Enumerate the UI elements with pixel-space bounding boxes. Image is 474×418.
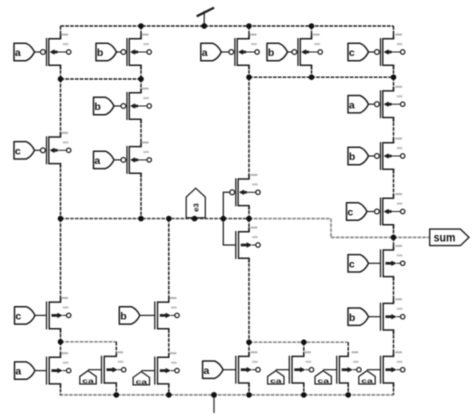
net label ca — [133, 371, 155, 386]
wire node n4 (right pull-down) — [249, 341, 348, 343]
svg-text:b: b — [349, 312, 355, 324]
wire sum to M12 drain — [248, 219, 250, 232]
junction n2 at M6 — [246, 74, 252, 80]
input port b — [119, 307, 155, 324]
pmos M3 (gate b) — [121, 88, 151, 124]
wire n2 to M11 source — [248, 77, 250, 179]
wire M14 source to M17 drain — [168, 329, 170, 358]
pmos M11 (gate e3) — [230, 174, 260, 210]
svg-text:e3: e3 — [192, 203, 201, 211]
input port b — [94, 97, 121, 114]
svg-text:c: c — [349, 47, 355, 59]
input port c — [348, 43, 374, 60]
junction n4 at M12 — [246, 339, 252, 345]
svg-text:ca: ca — [82, 378, 94, 385]
junction sum at inverter drain — [246, 216, 252, 222]
net label e3 — [186, 188, 205, 218]
junction n2 at M8 — [391, 74, 397, 80]
wire M10 drain to M21 source — [393, 169, 395, 198]
wire M4 drain to e3 — [140, 173, 142, 218]
nmos M24 (gate ca) — [381, 351, 405, 387]
wire M1 drain to n1 — [60, 65, 62, 79]
wire n1 to M5 source — [60, 79, 62, 137]
wire node n3 (left pull-down) — [61, 341, 117, 343]
vdd supply symbol — [197, 8, 214, 26]
wire M20 source to gnd — [347, 383, 349, 395]
junction gnd at stem — [211, 392, 217, 398]
nmos M19 (gate ca) — [289, 351, 313, 387]
pmos M6 (gate a) — [229, 34, 259, 70]
wire n3 to M15 drain — [60, 342, 62, 358]
svg-text:b: b — [268, 47, 274, 59]
wire inverter gate net — [223, 192, 236, 245]
wire node n1 (left pull-up) — [61, 78, 142, 80]
wire M13 source to n3 — [60, 329, 62, 342]
wire n4 to M18 drain — [248, 342, 250, 356]
svg-text:c: c — [15, 145, 21, 157]
wire vdd to M7 source — [311, 26, 313, 39]
svg-text:c: c — [347, 207, 353, 219]
wire e3 to M14 drain — [168, 219, 170, 303]
input port c — [348, 255, 381, 272]
svg-text:b: b — [97, 47, 103, 59]
svg-text:b: b — [120, 311, 126, 323]
nmos M23 (gate b) — [381, 298, 405, 334]
junction gnd at M17 — [166, 392, 172, 398]
pmos M7 (gate b) — [292, 34, 322, 70]
pmos M8 (gate c) — [375, 34, 405, 70]
input port b — [348, 147, 374, 164]
pmos M4 (gate a) — [121, 142, 151, 178]
wire sum output net — [249, 219, 430, 238]
svg-text:b: b — [349, 151, 355, 163]
junction vdd rail at M6 — [246, 23, 252, 29]
svg-text:ca: ca — [318, 378, 330, 385]
net label ca — [359, 370, 381, 385]
wire node n2 (right pull-up parallel trio) — [249, 76, 394, 78]
junction e3 at inverter gate — [221, 216, 227, 222]
input port a — [348, 96, 374, 113]
input port c — [347, 203, 375, 220]
wire n1 to M3 source — [140, 79, 142, 93]
wire M8 drain to n2 — [393, 65, 395, 77]
wire M18 source to gnd — [248, 383, 250, 395]
svg-text:c: c — [15, 311, 21, 323]
nmos M16 (gate ca) — [102, 351, 126, 387]
junction vdd rail at supply — [201, 23, 207, 29]
nmos M12 (gate e3) — [236, 227, 260, 263]
junction n1 left — [58, 76, 64, 82]
svg-text:ca: ca — [270, 378, 282, 385]
wire M19 source to gnd — [303, 383, 305, 395]
input port b — [96, 43, 121, 60]
junction gnd at M16 — [114, 392, 120, 398]
wire vdd to M2 source — [140, 26, 142, 39]
wire vdd rail — [61, 25, 394, 27]
wire M22 source to M23 drain — [393, 277, 395, 304]
junction n3 at M13 — [58, 339, 64, 345]
input port a — [94, 151, 121, 168]
nmos M20 (gate ca) — [337, 351, 361, 387]
pmos M10 (gate b) — [375, 138, 405, 174]
input port a — [203, 361, 236, 378]
wire node e3 (sum-bar) — [61, 218, 250, 220]
wire n3 to M16 drain — [115, 342, 117, 357]
junction n1 right — [138, 76, 144, 82]
wire sum to M22 drain — [393, 237, 395, 250]
net label ca — [315, 370, 337, 385]
wire M12 source to n4 — [248, 258, 250, 342]
junction e3 at M4 — [138, 216, 144, 222]
wire vdd to M6 source — [248, 26, 250, 39]
wire M21 drain to sum — [393, 225, 395, 238]
svg-text:a: a — [349, 99, 355, 111]
svg-text:c: c — [349, 258, 355, 270]
svg-text:a: a — [15, 366, 21, 378]
svg-text:b: b — [94, 101, 100, 113]
net label ca — [268, 370, 290, 385]
junction gnd at M19 — [301, 392, 307, 398]
junction gnd at M20 — [345, 392, 351, 398]
junction gnd at M18 — [246, 392, 252, 398]
output port sum — [430, 229, 469, 246]
junction vdd rail at M7 — [309, 23, 315, 29]
svg-text:a: a — [204, 365, 210, 377]
input port b — [267, 43, 292, 60]
wire vdd to M8 source — [393, 26, 395, 39]
nmos M15 (gate a) — [47, 352, 71, 388]
nmos M13 (gate c) — [47, 297, 71, 333]
wire M11 drain to sum — [248, 206, 250, 219]
input port b — [348, 308, 381, 325]
junction e3 at left branch — [58, 216, 64, 222]
nmos M17 (gate ca) — [155, 352, 179, 388]
wire M5 drain to e3 — [60, 164, 62, 219]
junction n2 at M7 — [309, 74, 315, 80]
pmos M9 (gate a) — [375, 86, 405, 122]
wire M23 source to M24 drain — [393, 330, 395, 356]
wire vdd to M1 source — [60, 26, 62, 39]
input port c — [14, 142, 40, 159]
junction sum at right chain — [391, 235, 397, 241]
input port a — [201, 43, 229, 60]
wire M2 drain to n1 — [140, 65, 142, 79]
pmos M2 (gate b) — [121, 34, 151, 70]
junction n4 at M19 — [301, 339, 307, 345]
junction vdd rail at M2 — [138, 23, 144, 29]
wire M15 source to gnd — [60, 384, 62, 395]
nmos M18 (gate a) — [236, 351, 260, 387]
wire M17 source to gnd — [168, 384, 170, 395]
nmos M14 (gate b) — [155, 297, 179, 333]
wire n4 to M19 drain — [303, 342, 305, 356]
wire M16 source to gnd — [115, 383, 117, 395]
svg-text:a: a — [94, 155, 100, 167]
wire M24 source to gnd — [393, 383, 395, 395]
wire e3 to M13 drain — [60, 219, 62, 303]
wire M7 drain to n2 — [311, 65, 313, 77]
wire n2 to M9 source — [393, 77, 395, 91]
svg-text:ca: ca — [361, 378, 373, 385]
junction e3 at label — [192, 216, 198, 222]
input port a — [14, 43, 40, 60]
svg-text:ca: ca — [136, 379, 148, 386]
input port c — [15, 307, 47, 324]
wire M3 drain to M4 source — [140, 119, 142, 146]
pmos M5 (gate c) — [41, 132, 71, 168]
junction e3 at M14 — [166, 216, 172, 222]
wire gnd rail — [60, 394, 394, 396]
svg-text:sum: sum — [434, 233, 456, 245]
ground stem — [213, 395, 215, 413]
input port a — [15, 362, 47, 379]
pmos M21 (gate c) — [375, 193, 405, 229]
net label ca — [80, 370, 102, 385]
wire M9 drain to M10 source — [393, 118, 395, 143]
svg-text:a: a — [202, 47, 208, 59]
pmos M1 (gate a) — [41, 34, 71, 70]
wire M6 drain to n2 — [248, 65, 250, 77]
svg-text:a: a — [15, 47, 21, 59]
nmos M22 (gate c) — [381, 245, 405, 281]
wire n4 to M20 drain — [347, 342, 349, 356]
